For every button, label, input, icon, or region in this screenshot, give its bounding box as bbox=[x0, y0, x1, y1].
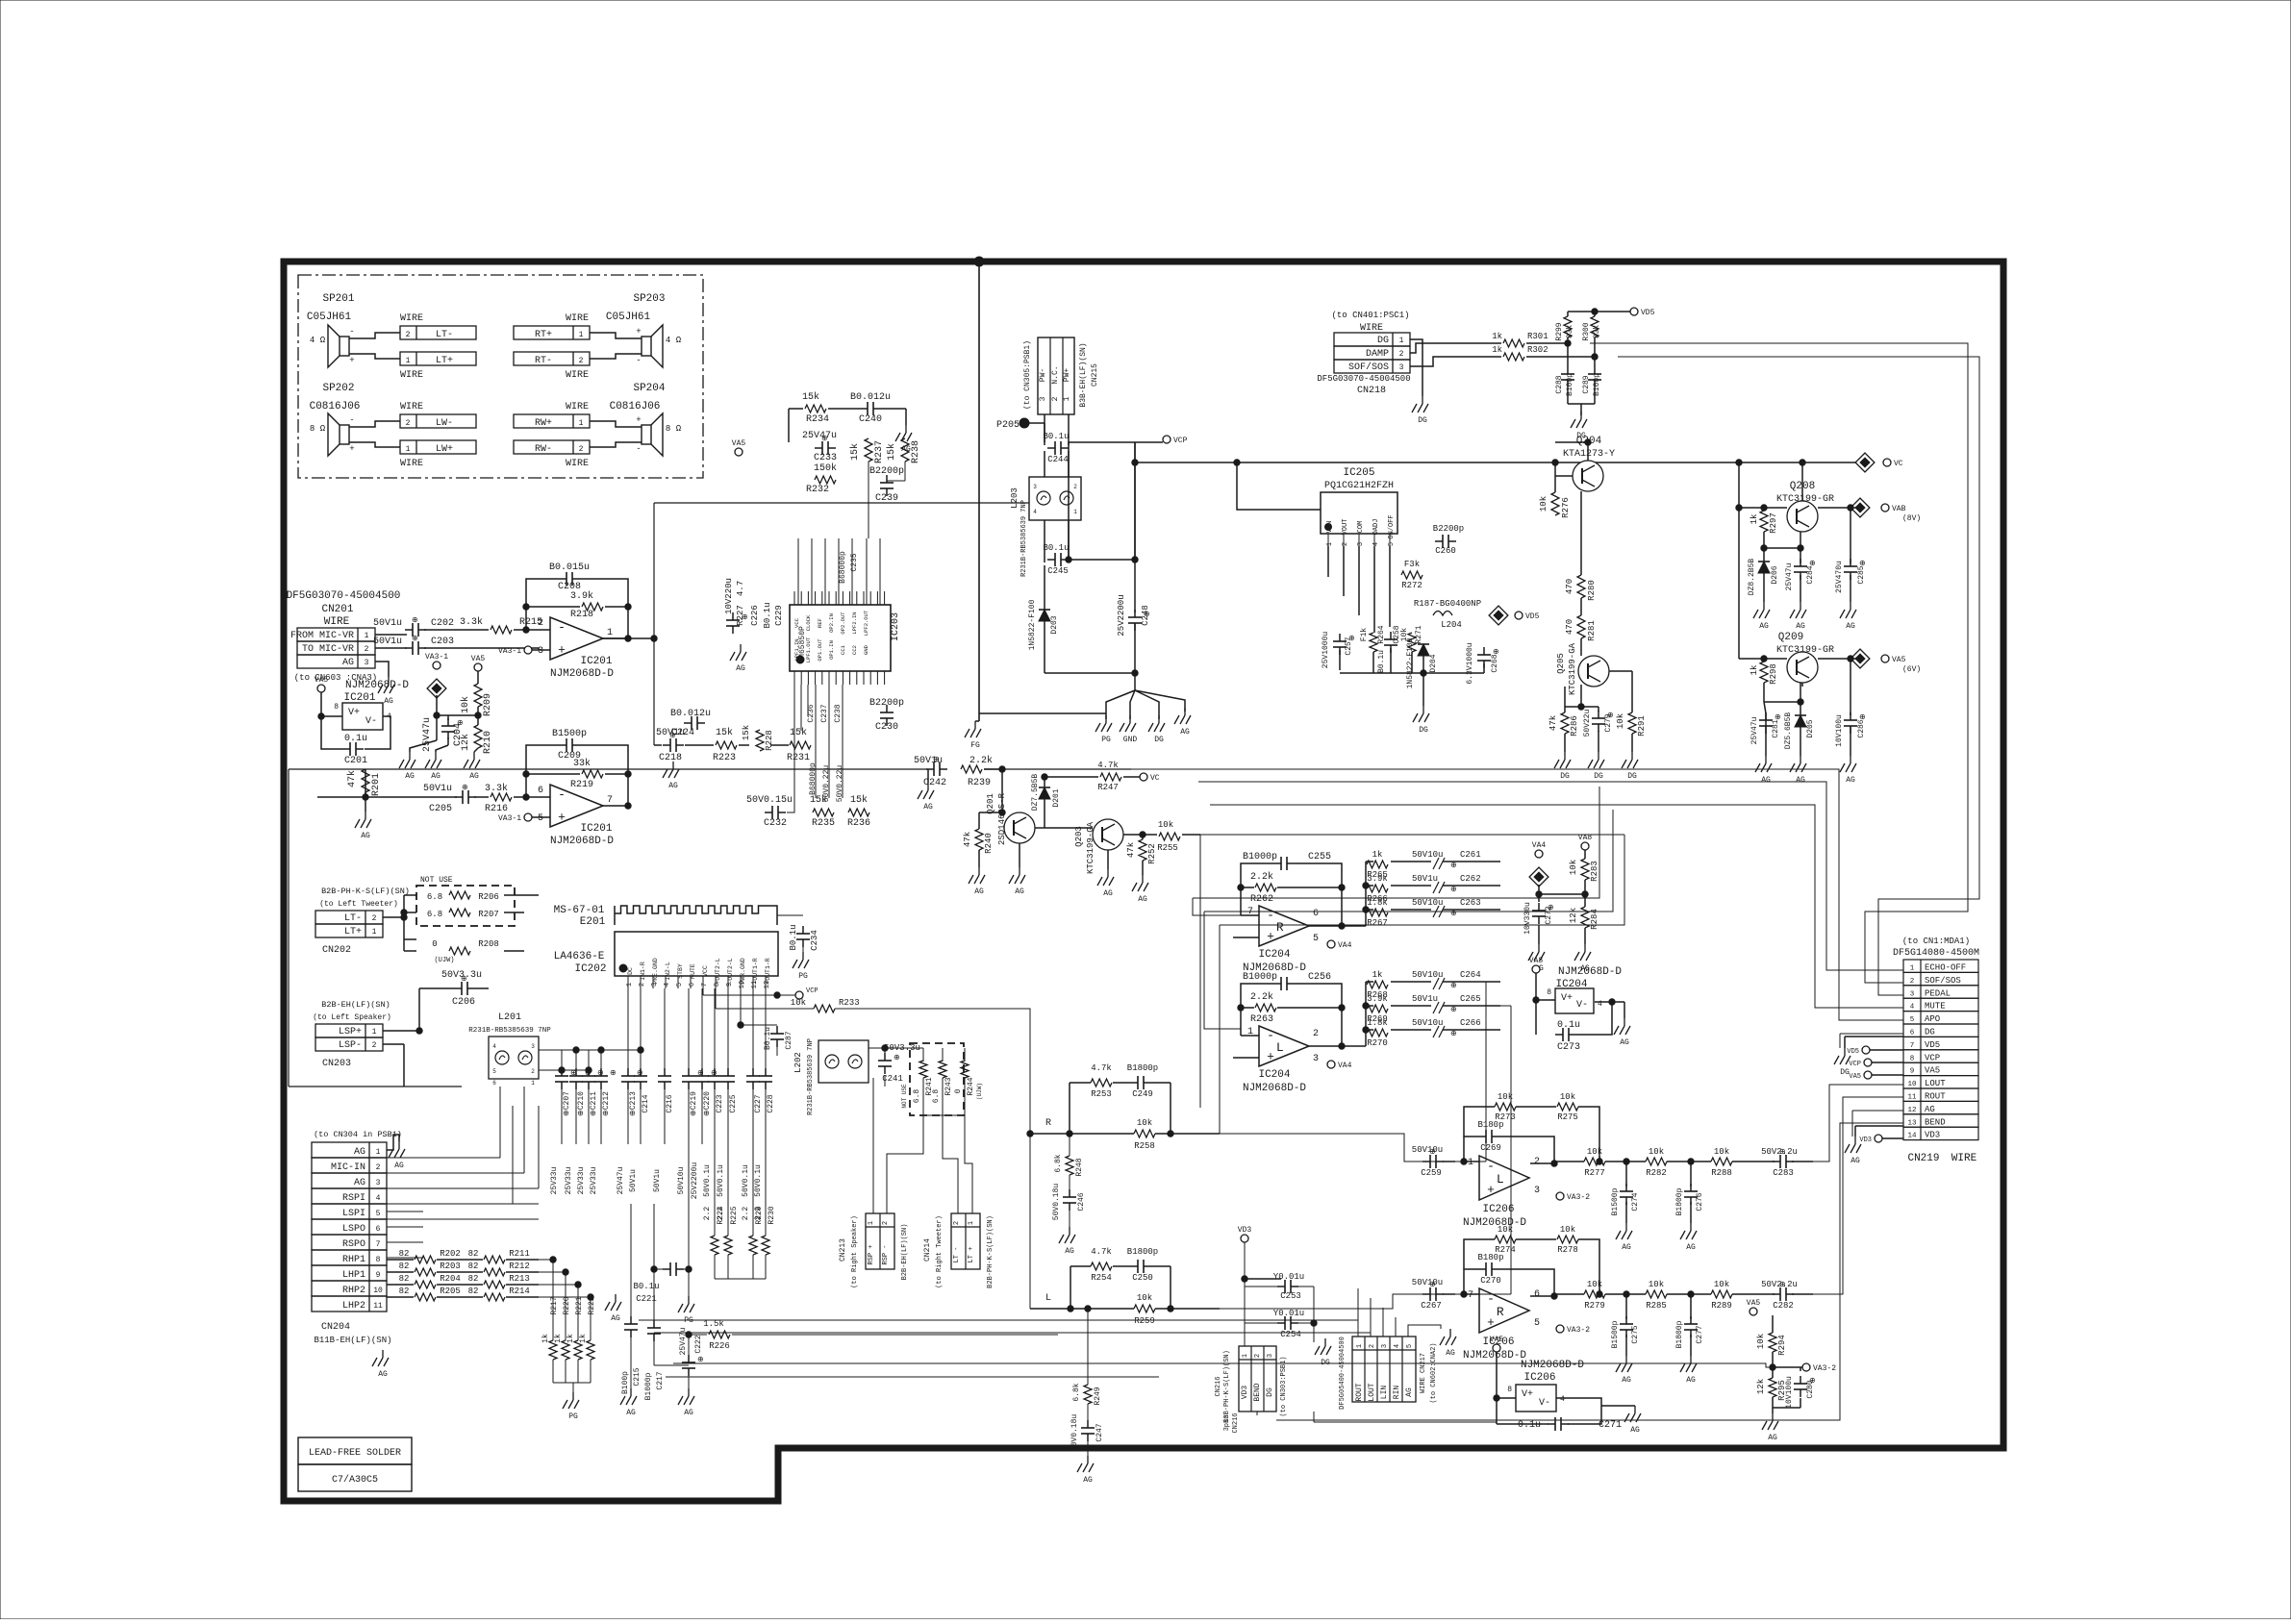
svg-text:LEAD-FREE SOLDER: LEAD-FREE SOLDER bbox=[309, 1448, 401, 1459]
svg-text:⊕: ⊕ bbox=[1450, 1006, 1457, 1014]
svg-text:C255: C255 bbox=[1308, 852, 1331, 862]
connector cell RT+ bbox=[514, 326, 590, 339]
svg-text:NJM2068D-D: NJM2068D-D bbox=[550, 668, 614, 680]
svg-text:VA8: VA8 bbox=[1529, 957, 1544, 965]
svg-text:LSPO: LSPO bbox=[342, 1224, 365, 1235]
ground AG CN217 bbox=[1440, 1329, 1456, 1358]
wire long buses bottom bbox=[539, 1259, 553, 1261]
svg-text:B2B-EH(LF)(SN): B2B-EH(LF)(SN) bbox=[321, 1000, 390, 1010]
svg-text:2: 2 bbox=[1073, 484, 1077, 490]
grounds AG under Q203 bbox=[1097, 869, 1148, 904]
op-amp IC206 R bbox=[1479, 1288, 1529, 1333]
svg-text:F1k: F1k bbox=[1360, 628, 1369, 642]
svg-text:ECHO-OFF: ECHO-OFF bbox=[1925, 963, 1966, 973]
svg-text:12k: 12k bbox=[1569, 908, 1578, 923]
svg-text:DAMP: DAMP bbox=[1366, 349, 1389, 360]
svg-text:R207: R207 bbox=[478, 910, 499, 919]
svg-text:R217: R217 bbox=[550, 1296, 559, 1314]
svg-text:C224: C224 bbox=[671, 728, 694, 738]
svg-text:AG: AG bbox=[1768, 1434, 1777, 1442]
wire IC203 pins to C232 row bbox=[787, 685, 794, 812]
svg-text:R221: R221 bbox=[575, 1296, 584, 1314]
wire R234 C240 bbox=[789, 408, 803, 410]
svg-text:KTC3199-GA: KTC3199-GA bbox=[1568, 642, 1577, 695]
wire P205 bbox=[1029, 422, 1045, 424]
svg-text:WIRE: WIRE bbox=[400, 370, 423, 381]
svg-text:LT +: LT + bbox=[968, 1247, 975, 1263]
svg-text:5: 5 bbox=[492, 1068, 496, 1075]
ground AG CN204 bbox=[389, 1141, 405, 1170]
svg-text:R239: R239 bbox=[968, 778, 991, 788]
svg-text:8: 8 bbox=[1547, 988, 1551, 997]
terminal VA3-2 R bbox=[1556, 1325, 1590, 1335]
svg-text:470: 470 bbox=[1565, 579, 1574, 594]
svg-text:⊕: ⊕ bbox=[461, 975, 467, 984]
wire feedback IC201b bbox=[526, 774, 580, 797]
svg-text:L204: L204 bbox=[1441, 620, 1462, 630]
ground DG IC205 bbox=[1413, 706, 1429, 735]
svg-text:D201: D201 bbox=[1052, 788, 1061, 807]
op-amp IC201 second bbox=[550, 785, 603, 827]
svg-text:VA5: VA5 bbox=[1925, 1066, 1940, 1076]
svg-text:B180p: B180p bbox=[1477, 1253, 1503, 1262]
transistor Q208 label bbox=[1776, 481, 1834, 505]
svg-text:R205: R205 bbox=[440, 1287, 461, 1296]
svg-text:RSP -: RSP - bbox=[882, 1244, 890, 1264]
op-amp IC206 L label bbox=[1463, 1204, 1526, 1229]
svg-text:L: L bbox=[1497, 1172, 1504, 1187]
ground AG C273 bbox=[1614, 1018, 1630, 1047]
svg-text:50V0.22u: 50V0.22u bbox=[836, 765, 844, 803]
svg-text:3: 3 bbox=[1399, 363, 1404, 372]
svg-text:R228: R228 bbox=[765, 730, 774, 751]
svg-text:2.2k: 2.2k bbox=[1250, 871, 1273, 883]
svg-text:Q201: Q201 bbox=[986, 793, 995, 814]
svg-text:R243: R243 bbox=[944, 1077, 953, 1095]
svg-text:IC202: IC202 bbox=[574, 963, 606, 975]
svg-text:AG: AG bbox=[354, 1178, 365, 1188]
IC LA4636-E IC202 bbox=[615, 932, 778, 976]
svg-text:R278: R278 bbox=[1557, 1245, 1578, 1255]
svg-text:8: 8 bbox=[376, 1256, 381, 1264]
svg-text:NOT USE: NOT USE bbox=[420, 876, 453, 885]
svg-text:-: - bbox=[636, 444, 641, 454]
svg-text:C259: C259 bbox=[1421, 1168, 1442, 1178]
svg-text:-: - bbox=[1487, 1160, 1495, 1174]
svg-text:AG: AG bbox=[1620, 1038, 1629, 1047]
svg-text:C274: C274 bbox=[1631, 1192, 1640, 1211]
wire feedback IC201a bbox=[526, 607, 580, 630]
ground PG C234 bbox=[793, 952, 809, 981]
svg-text:50V10u: 50V10u bbox=[1412, 1278, 1443, 1287]
svg-text:B0.1u: B0.1u bbox=[764, 1027, 772, 1050]
svg-text:R202: R202 bbox=[440, 1249, 461, 1259]
svg-text:9: 9 bbox=[1910, 1068, 1915, 1076]
svg-text:6: 6 bbox=[689, 983, 696, 987]
svg-text:P205: P205 bbox=[996, 420, 1020, 431]
svg-text:LHP1: LHP1 bbox=[342, 1270, 365, 1281]
svg-text:FG: FG bbox=[970, 741, 980, 750]
svg-text:RIN: RIN bbox=[1393, 1386, 1401, 1400]
svg-text:DG: DG bbox=[1925, 1028, 1935, 1037]
svg-text:C227: C227 bbox=[754, 1094, 763, 1112]
svg-text:R270: R270 bbox=[1367, 1038, 1388, 1048]
grounds AG L out bbox=[1616, 1223, 1697, 1252]
svg-text:WIRE: WIRE bbox=[400, 402, 423, 412]
svg-text:2.2: 2.2 bbox=[703, 1207, 712, 1221]
wire L filter bbox=[1070, 1266, 1071, 1309]
diamond VA3-1 bbox=[427, 679, 446, 698]
svg-text:OP1.IN: OP1.IN bbox=[828, 640, 835, 660]
wire R299 R300 top bbox=[1567, 312, 1569, 316]
svg-text:B0.015u: B0.015u bbox=[549, 562, 590, 573]
connector CN201 title bbox=[321, 604, 353, 628]
svg-text:B2B-PH-K-S(LF)(SN): B2B-PH-K-S(LF)(SN) bbox=[987, 1215, 994, 1288]
wire label SP204 top bbox=[566, 402, 589, 412]
svg-text:8: 8 bbox=[714, 983, 721, 987]
connector CN218 bbox=[1334, 333, 1410, 346]
svg-text:4: 4 bbox=[1372, 542, 1380, 546]
connector cell LW- bbox=[400, 414, 476, 428]
terminal VA8 IC204 power bbox=[1529, 957, 1544, 973]
svg-text:1: 1 bbox=[1326, 542, 1334, 546]
svg-text:1: 1 bbox=[607, 628, 613, 638]
connector CN218 part bbox=[1317, 374, 1410, 396]
terminal VA3-2 L bbox=[1556, 1192, 1590, 1202]
ground AG CN204 bottom bbox=[372, 1350, 389, 1379]
capacitor C287 bbox=[740, 988, 742, 1025]
svg-text:R219: R219 bbox=[570, 780, 593, 790]
svg-text:C257: C257 bbox=[1345, 637, 1353, 655]
svg-text:3: 3 bbox=[538, 646, 543, 657]
svg-text:R210: R210 bbox=[483, 731, 493, 754]
svg-text:-: - bbox=[1267, 908, 1274, 922]
svg-text:DZ7.5B5B: DZ7.5B5B bbox=[1031, 774, 1040, 812]
svg-text:11: 11 bbox=[373, 1302, 383, 1311]
svg-text:B3B-EH(LF)(SN): B3B-EH(LF)(SN) bbox=[1079, 342, 1088, 407]
svg-text:VAB: VAB bbox=[1892, 505, 1906, 513]
svg-text:R248: R248 bbox=[1075, 1158, 1084, 1176]
grounds AG PG C221 bbox=[605, 1294, 694, 1325]
svg-text:MS-67-01: MS-67-01 bbox=[554, 905, 605, 916]
connector CN219 bottom label bbox=[1907, 1153, 1976, 1164]
svg-text:IC204: IC204 bbox=[1258, 1069, 1290, 1081]
wire Q204 Q205 bbox=[1587, 442, 1589, 461]
svg-text:LT-: LT- bbox=[436, 330, 453, 340]
svg-text:C230: C230 bbox=[875, 722, 898, 733]
svg-text:⊕: ⊕ bbox=[1450, 910, 1457, 918]
svg-text:IC203: IC203 bbox=[891, 612, 901, 641]
svg-text:25V47u: 25V47u bbox=[679, 1327, 688, 1355]
wire CN213 feed bbox=[872, 1078, 874, 1213]
svg-text:5: 5 bbox=[1388, 542, 1396, 546]
terminal VCP IC202 bbox=[702, 988, 704, 995]
svg-text:2: 2 bbox=[1534, 1157, 1540, 1167]
svg-text:C254: C254 bbox=[1280, 1330, 1301, 1339]
wire trio corners to op-amp inputs bbox=[1193, 787, 1599, 898]
ground DG CN216 bbox=[1315, 1338, 1331, 1367]
svg-text:R294: R294 bbox=[1777, 1335, 1787, 1356]
svg-text:VA3-1: VA3-1 bbox=[498, 814, 521, 823]
svg-text:6.8k: 6.8k bbox=[1072, 1383, 1081, 1401]
svg-text:15k: 15k bbox=[810, 794, 827, 806]
svg-text:IC201: IC201 bbox=[580, 823, 612, 835]
svg-text:47k: 47k bbox=[963, 832, 972, 847]
svg-text:LPF2.OUT: LPF2.OUT bbox=[863, 610, 869, 636]
svg-text:9: 9 bbox=[726, 983, 734, 987]
svg-text:DG: DG bbox=[1840, 1068, 1850, 1077]
svg-text:VD5: VD5 bbox=[1925, 1040, 1940, 1050]
svg-text:VC: VC bbox=[1150, 774, 1160, 783]
wire R294 R295 bbox=[1772, 1315, 1774, 1333]
svg-text:1: 1 bbox=[372, 928, 377, 937]
svg-text:VA5: VA5 bbox=[1892, 656, 1906, 664]
svg-text:DG: DG bbox=[1377, 336, 1389, 346]
svg-text:C263: C263 bbox=[1460, 898, 1481, 908]
svg-text:25V33u: 25V33u bbox=[565, 1166, 573, 1194]
svg-text:F3k: F3k bbox=[1404, 560, 1420, 569]
svg-text:⊕C212: ⊕C212 bbox=[602, 1091, 611, 1116]
svg-text:50V10u: 50V10u bbox=[677, 1166, 686, 1194]
svg-text:C262: C262 bbox=[1460, 874, 1481, 884]
svg-text:VCP: VCP bbox=[1173, 437, 1188, 445]
svg-text:DC: DC bbox=[627, 967, 634, 975]
svg-text:BEND: BEND bbox=[1925, 1117, 1946, 1127]
svg-text:10k: 10k bbox=[1158, 820, 1173, 830]
svg-text:IC201: IC201 bbox=[343, 692, 375, 704]
svg-text:4: 4 bbox=[492, 1043, 496, 1050]
svg-text:VA5: VA5 bbox=[1490, 1336, 1504, 1344]
svg-text:8 Ω: 8 Ω bbox=[666, 424, 682, 434]
svg-text:1.8k: 1.8k bbox=[1367, 1018, 1388, 1028]
svg-text:25V33u: 25V33u bbox=[550, 1166, 559, 1194]
speaker SP201 bbox=[328, 325, 355, 367]
svg-text:AG: AG bbox=[1759, 622, 1769, 631]
svg-text:⊕: ⊕ bbox=[412, 616, 418, 625]
svg-text:C206: C206 bbox=[452, 997, 475, 1008]
terminal VA3-1 second bbox=[498, 813, 532, 823]
wire C221 bbox=[654, 1268, 663, 1270]
svg-text:C214: C214 bbox=[642, 1094, 650, 1112]
wire VA3-1 R209 junction bbox=[436, 695, 438, 715]
wire CN204 rows bbox=[387, 1211, 423, 1212]
svg-text:R249: R249 bbox=[1094, 1387, 1102, 1405]
terminal VD5 top right bbox=[1630, 308, 1655, 317]
svg-text:-: - bbox=[349, 327, 354, 337]
svg-text:(6V): (6V) bbox=[1902, 665, 1921, 674]
wire label SP203 bottom bbox=[566, 370, 589, 381]
svg-text:C7/A30C5: C7/A30C5 bbox=[332, 1474, 378, 1486]
svg-text:3: 3 bbox=[1534, 1186, 1540, 1196]
svg-text:3.9k: 3.9k bbox=[1367, 994, 1388, 1004]
terminal VA8 top bbox=[1578, 834, 1593, 850]
svg-text:C229: C229 bbox=[774, 605, 784, 626]
svg-text:25V33u: 25V33u bbox=[577, 1166, 586, 1194]
svg-text:R223: R223 bbox=[713, 753, 736, 763]
svg-text:AG: AG bbox=[1796, 622, 1805, 631]
svg-text:L201: L201 bbox=[498, 1012, 521, 1023]
svg-text:2: 2 bbox=[372, 1041, 377, 1050]
svg-text:D206: D206 bbox=[1771, 565, 1779, 584]
svg-text:3: 3 bbox=[651, 983, 659, 987]
svg-text:2: 2 bbox=[1342, 542, 1349, 546]
svg-text:B11B-EH(LF)(SN): B11B-EH(LF)(SN) bbox=[314, 1336, 391, 1345]
svg-text:-: - bbox=[558, 620, 566, 635]
svg-text:D205: D205 bbox=[1806, 719, 1815, 737]
svg-text:3: 3 bbox=[365, 659, 369, 667]
svg-text:C237: C237 bbox=[820, 704, 829, 722]
svg-text:2.2: 2.2 bbox=[717, 1207, 725, 1221]
svg-text:6: 6 bbox=[376, 1225, 381, 1234]
svg-text:R212: R212 bbox=[509, 1262, 530, 1271]
svg-text:R301: R301 bbox=[1527, 332, 1548, 341]
svg-text:DF5G03070-45004500: DF5G03070-45004500 bbox=[1317, 374, 1410, 384]
connector CN203 bbox=[315, 1024, 383, 1037]
svg-text:⊕C213: ⊕C213 bbox=[629, 1091, 638, 1116]
svg-text:C250: C250 bbox=[1132, 1273, 1153, 1283]
svg-text:4: 4 bbox=[1033, 509, 1037, 515]
svg-text:⊕: ⊕ bbox=[742, 613, 748, 622]
svg-text:1.8k: 1.8k bbox=[1367, 898, 1388, 908]
svg-text:R187-BG0400NP: R187-BG0400NP bbox=[1414, 599, 1481, 609]
svg-text:6: 6 bbox=[1313, 909, 1319, 919]
capacitor C234 bbox=[777, 914, 803, 916]
svg-text:R204: R204 bbox=[440, 1274, 461, 1284]
svg-text:R209: R209 bbox=[483, 693, 493, 716]
svg-text:⊕: ⊕ bbox=[1450, 886, 1457, 894]
svg-text:-: - bbox=[1267, 1028, 1274, 1042]
transistor Q205 bbox=[1578, 656, 1609, 687]
svg-text:B1800p: B1800p bbox=[1675, 1320, 1684, 1348]
wire CN216 bbox=[1244, 1242, 1246, 1346]
svg-text:C239: C239 bbox=[875, 493, 898, 504]
svg-text:OADJ: OADJ bbox=[1372, 519, 1380, 536]
svg-text:VA5: VA5 bbox=[1849, 1073, 1861, 1081]
wire SP203 to cells bbox=[590, 333, 642, 338]
svg-text:SP203: SP203 bbox=[633, 293, 665, 305]
svg-text:4 Ω: 4 Ω bbox=[666, 336, 682, 345]
svg-text:4.7: 4.7 bbox=[736, 581, 745, 596]
svg-text:B180p: B180p bbox=[1477, 1120, 1503, 1130]
svg-text:14: 14 bbox=[1907, 1133, 1917, 1140]
svg-text:4.7k: 4.7k bbox=[1091, 1247, 1112, 1257]
svg-text:2: 2 bbox=[1399, 350, 1404, 359]
wire DG to CN219 row6 bbox=[1840, 1033, 1903, 1035]
svg-text:B1000p: B1000p bbox=[1243, 852, 1277, 862]
svg-text:(to Left Speaker): (to Left Speaker) bbox=[313, 1013, 391, 1022]
svg-text:5: 5 bbox=[538, 813, 543, 824]
svg-text:7: 7 bbox=[1910, 1042, 1915, 1050]
svg-text:CN201: CN201 bbox=[321, 604, 353, 615]
connector CN202 label bbox=[322, 945, 351, 956]
svg-text:LOUT: LOUT bbox=[1368, 1383, 1376, 1401]
svg-text:DG: DG bbox=[1154, 736, 1164, 744]
svg-text:2: 2 bbox=[406, 419, 411, 428]
svg-text:3.9k: 3.9k bbox=[1367, 874, 1388, 884]
svg-text:R220: R220 bbox=[563, 1296, 571, 1314]
svg-text:C205: C205 bbox=[429, 804, 452, 814]
ground FG bbox=[965, 721, 981, 750]
svg-text:R: R bbox=[1276, 920, 1284, 935]
wire BEND to CN219 row13 bbox=[1276, 1123, 1903, 1420]
svg-text:PG: PG bbox=[1101, 736, 1111, 744]
svg-text:AG: AG bbox=[1850, 1157, 1860, 1165]
svg-text:R244: R244 bbox=[967, 1077, 975, 1095]
ground DG CN219 bbox=[1834, 1048, 1850, 1077]
svg-text:C245: C245 bbox=[1047, 566, 1069, 576]
svg-text:82: 82 bbox=[468, 1262, 479, 1271]
svg-text:⊕: ⊕ bbox=[1450, 862, 1457, 870]
svg-text:3.3k: 3.3k bbox=[485, 783, 508, 794]
svg-text:C236: C236 bbox=[807, 704, 816, 722]
svg-text:C275: C275 bbox=[1631, 1325, 1640, 1343]
svg-text:DF5G05400-45004500: DF5G05400-45004500 bbox=[1339, 1337, 1347, 1410]
svg-text:6: 6 bbox=[492, 1080, 496, 1087]
svg-text:1: 1 bbox=[406, 357, 411, 365]
svg-text:2: 2 bbox=[376, 1163, 381, 1172]
svg-text:C218: C218 bbox=[659, 753, 682, 763]
wire right vertical buses R301 R302 to CN219 bbox=[1590, 343, 1968, 983]
svg-text:AG: AG bbox=[361, 832, 370, 840]
svg-text:AG: AG bbox=[1630, 1426, 1640, 1435]
svg-text:8: 8 bbox=[1507, 1386, 1512, 1394]
svg-text:B0.1u: B0.1u bbox=[1043, 543, 1069, 553]
connector CN203 label bbox=[322, 1059, 351, 1069]
svg-text:C288: C288 bbox=[1555, 375, 1564, 393]
wire C215 C217 cluster bbox=[630, 1204, 632, 1319]
svg-text:LHP2: LHP2 bbox=[342, 1301, 365, 1312]
svg-text:12k: 12k bbox=[1756, 1379, 1766, 1394]
wire Q208 bbox=[1739, 507, 1787, 509]
terminal VA5 bottom bbox=[1747, 1299, 1761, 1315]
svg-text:(8V): (8V) bbox=[1902, 514, 1921, 523]
svg-text:25V2200u: 25V2200u bbox=[691, 1162, 699, 1200]
svg-text:WIRE: WIRE bbox=[566, 459, 589, 469]
connector CN203 title bbox=[313, 1000, 391, 1022]
svg-text:-: - bbox=[349, 415, 354, 425]
svg-text:10k: 10k bbox=[1616, 713, 1625, 729]
svg-text:C279: C279 bbox=[1604, 713, 1613, 732]
svg-text:C273: C273 bbox=[1557, 1042, 1580, 1053]
svg-text:PQ1CG21H2FZH: PQ1CG21H2FZH bbox=[1324, 481, 1394, 491]
svg-text:C261: C261 bbox=[1460, 850, 1481, 860]
svg-text:13: 13 bbox=[1907, 1119, 1917, 1127]
svg-text:R291: R291 bbox=[1637, 715, 1647, 737]
svg-text:R302: R302 bbox=[1527, 345, 1548, 355]
svg-text:VCC: VCC bbox=[793, 617, 800, 628]
svg-text:10k: 10k bbox=[1539, 496, 1548, 512]
svg-text:50V0.1u: 50V0.1u bbox=[754, 1164, 763, 1197]
grounds AG R out bbox=[1616, 1356, 1697, 1385]
svg-text:R283: R283 bbox=[1590, 861, 1599, 882]
svg-text:LA4636-E: LA4636-E bbox=[554, 951, 605, 962]
svg-text:V+: V+ bbox=[1561, 993, 1573, 1004]
svg-text:47k: 47k bbox=[1126, 842, 1136, 858]
wire ROUT to CN219 row11 bbox=[1813, 1097, 1903, 1294]
svg-text:D204: D204 bbox=[1429, 654, 1438, 672]
svg-text:(UJW): (UJW) bbox=[434, 957, 454, 964]
svg-text:47k: 47k bbox=[346, 770, 358, 787]
speaker SP204 label bbox=[633, 383, 665, 394]
svg-text:Y0.01u: Y0.01u bbox=[1273, 1272, 1304, 1282]
connector CN201 part number bbox=[287, 590, 401, 602]
svg-text:5: 5 bbox=[1534, 1318, 1540, 1329]
grounds AG C215 C222 bbox=[620, 1388, 694, 1417]
connector CN216 bbox=[1239, 1346, 1276, 1412]
transistor Q204 bbox=[1573, 461, 1603, 491]
svg-text:C240: C240 bbox=[859, 414, 882, 425]
wire IC201a output bbox=[603, 637, 654, 639]
